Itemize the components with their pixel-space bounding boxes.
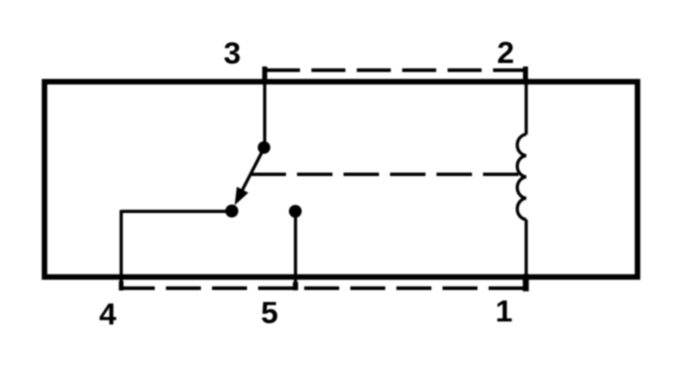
wire coil bottom to pin1 — [525, 220, 528, 278]
wire NC contact to pin4 riser — [121, 210, 233, 213]
svg-text:3: 3 — [224, 36, 241, 71]
wire pin3 stem to common contact — [263, 84, 266, 147]
relay body outline K1 — [45, 82, 638, 277]
wire pin5 stem — [294, 209, 297, 284]
pin 1 terminal tick — [523, 274, 529, 291]
junction dot NC contact to pin 4 — [225, 205, 238, 218]
svg-text:5: 5 — [261, 295, 278, 330]
coil L1 — [517, 134, 526, 219]
dashed link pin3 to pin2 — [266, 68, 527, 72]
wire pin2 stem to coil top — [525, 84, 528, 135]
dashed link pin4 to pin1 — [120, 286, 524, 290]
dashed link armature to coil — [251, 173, 519, 176]
wire pin4 riser — [120, 210, 123, 290]
svg-text:2: 2 — [497, 35, 514, 70]
switch armature with arrowhead — [236, 150, 263, 203]
svg-text:1: 1 — [495, 294, 512, 329]
junction dot common contact (pin 3) — [258, 141, 271, 154]
junction dot NO contact (pin 5) — [289, 205, 302, 218]
pin 3 terminal tick — [262, 67, 267, 85]
pin 4 terminal tick — [119, 281, 124, 291]
pin 5 terminal tick — [293, 282, 298, 290]
svg-text:4: 4 — [99, 297, 117, 332]
pin 2 terminal tick — [523, 67, 528, 85]
